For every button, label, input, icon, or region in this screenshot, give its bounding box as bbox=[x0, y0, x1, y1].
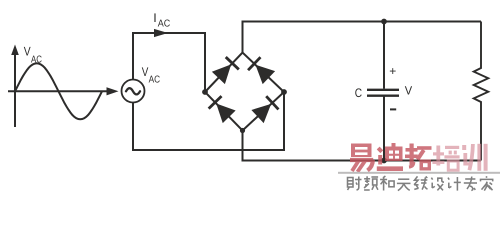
junction dot: capacitor bottom node bbox=[381, 158, 387, 164]
watermark tagline character 家 bbox=[481, 176, 493, 190]
wire: bridge bottom corner to negative rail bbox=[243, 131, 482, 161]
svg-text:AC: AC bbox=[158, 19, 171, 30]
junction dot: bridge left corner bbox=[202, 89, 208, 95]
junction dot: capacitor top node bbox=[381, 19, 387, 25]
waveform vertical axis bbox=[14, 52, 16, 127]
watermark tagline character 设 bbox=[431, 178, 444, 191]
capacitor top lead bbox=[383, 22, 385, 89]
waveform horizontal axis bbox=[8, 90, 108, 92]
watermark tagline character 频 bbox=[364, 176, 378, 190]
watermark tagline character 天 bbox=[397, 179, 411, 190]
capacitor C plates bbox=[367, 89, 399, 91]
current arrowhead on top wire bbox=[154, 29, 168, 37]
diode D4 (bottom corner to right corner) bbox=[251, 96, 278, 123]
diode D1 (left corner to top corner) bbox=[212, 57, 239, 84]
bridge diamond wires bbox=[205, 53, 284, 131]
watermark underline bbox=[338, 172, 500, 174]
wire: source bottom to bridge right corner (AC return) bbox=[133, 92, 284, 150]
AC source V_AC bbox=[122, 80, 145, 103]
svg-text:V: V bbox=[405, 84, 412, 98]
sine waveform curve bbox=[15, 63, 102, 119]
junction dot: bridge bottom corner bbox=[240, 128, 245, 133]
watermark tagline character 计 bbox=[448, 177, 461, 191]
watermark character 训 bbox=[462, 144, 487, 171]
waveform horizontal axis arrowhead bbox=[107, 87, 119, 95]
label - (capacitor polarity) bbox=[390, 108, 396, 110]
watermark character 易 bbox=[350, 144, 373, 172]
svg-text:I: I bbox=[153, 11, 156, 25]
diode D3 (bottom corner to left corner) bbox=[209, 96, 236, 123]
watermark tagline character 专 bbox=[464, 177, 477, 191]
capacitor bottom lead bbox=[383, 97, 385, 161]
wire: source top to bridge left corner bbox=[133, 33, 205, 92]
wire: bridge top corner to top rail bbox=[243, 22, 482, 53]
junction dot: bridge right corner bbox=[281, 89, 287, 95]
diode D2 (right corner to top corner) bbox=[248, 57, 275, 84]
watermark tagline character 和 bbox=[380, 176, 394, 191]
svg-text:AC: AC bbox=[149, 74, 161, 85]
svg-text:+: + bbox=[389, 64, 396, 78]
svg-text:AC: AC bbox=[31, 55, 42, 66]
watermark logo text "易迪拓培训" bbox=[350, 143, 488, 172]
tilde inside AC source bbox=[126, 88, 140, 94]
watermark character 培 bbox=[432, 146, 459, 171]
watermark character 拓 bbox=[405, 144, 432, 171]
resistor R load bbox=[474, 22, 489, 161]
watermark tagline character 线 bbox=[414, 176, 427, 189]
svg-text:C: C bbox=[355, 86, 362, 100]
watermark tagline character 射 bbox=[348, 177, 362, 191]
waveform vertical axis arrowhead bbox=[11, 45, 19, 56]
watermark character 迪 bbox=[377, 143, 403, 169]
watermark tagline "射频和天线设计专家" bbox=[348, 176, 493, 191]
